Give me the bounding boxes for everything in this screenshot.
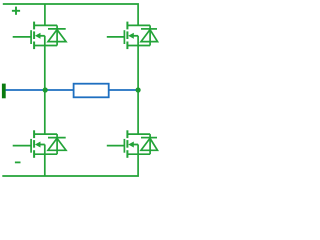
transistor Q4 (bottom-right MOSFET) [107,130,150,158]
wire: drain stem Q4 from node B [137,90,139,134]
wire: source stem Q1 to node A [44,36,46,90]
diode D2 (body diode of Q2) [141,25,158,45]
wire: drain stem Q1 to top rail [44,4,46,25]
wire: source stem Q2 to node B [137,36,139,90]
wire: source stem Q3 to bottom rail [44,145,46,177]
node B junction dot [136,87,141,92]
label - (negative terminal) [15,161,21,163]
wire: blue wire R1 to right node [109,89,138,91]
transistor Q3 (bottom-left MOSFET) [13,130,57,158]
diode D4 (body diode of Q4) [141,134,158,154]
wire: drain stem Q3 from node A [44,90,46,134]
transistor Q2 (top-right MOSFET) [107,22,150,49]
diode D3 (body diode of Q3) [48,134,66,154]
positive DC rail (top wire) [3,4,138,25]
wire: blue wire terminal to load R1 [6,89,74,91]
node A junction dot [43,87,48,92]
negative DC rail (bottom wire) [2,145,138,177]
left input terminal bar [2,84,6,99]
label + (positive terminal) [12,7,20,15]
transistor Q1 (top-left MOSFET) [13,22,57,49]
diode D1 (body diode of Q1) [48,25,66,45]
resistor R1 (load) [74,84,109,98]
